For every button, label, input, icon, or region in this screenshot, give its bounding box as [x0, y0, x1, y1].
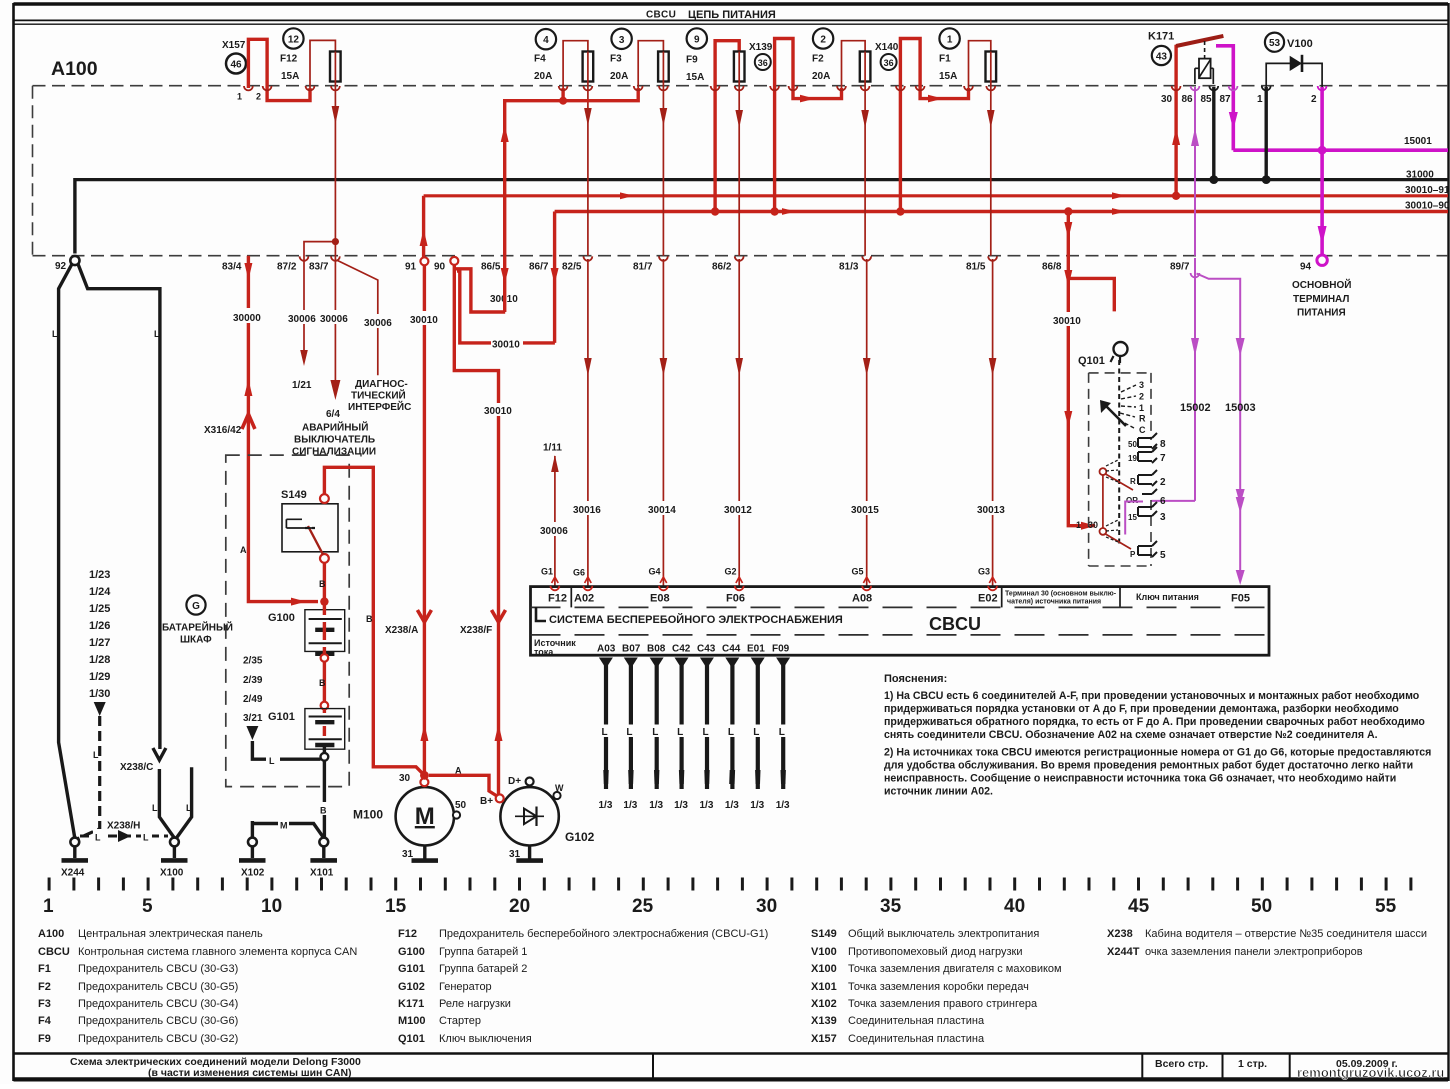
svg-text:1/3: 1/3 — [725, 800, 739, 811]
connector marker X238/A — [417, 610, 431, 622]
svg-text:1/21: 1/21 — [292, 380, 312, 391]
svg-text:1: 1 — [237, 92, 242, 102]
svg-text:Q101: Q101 — [1078, 355, 1105, 367]
svg-text:87: 87 — [1220, 94, 1232, 105]
svg-text:10: 10 — [261, 896, 282, 917]
svg-text:S149: S149 — [281, 489, 307, 501]
svg-text:30000: 30000 — [233, 313, 261, 324]
wire 91 to X238/A to M100 pin30 — [422, 196, 425, 257]
svg-text:V100: V100 — [1287, 38, 1313, 50]
connector sockets on A100 bottom dashed border — [300, 256, 997, 260]
svg-text:1: 1 — [947, 35, 953, 46]
svg-text:30010–91: 30010–91 — [1405, 185, 1450, 196]
wire right chassis to X100 — [176, 767, 191, 838]
svg-text:ТИЧЕСКИЙ: ТИЧЕСКИЙ — [351, 389, 406, 402]
svg-text:Кабина водителя – отверстие №3: Кабина водителя – отверстие №35 соединит… — [1145, 928, 1427, 940]
pin B+ — [496, 794, 504, 802]
wire pin 86 (thin magenta) down to 89/7 — [1194, 87, 1196, 256]
svg-text:12: 12 — [288, 35, 300, 46]
svg-text:1/23: 1/23 — [89, 569, 110, 581]
fuse F1 symbol — [986, 52, 997, 82]
svg-text:15A: 15A — [686, 72, 704, 83]
svg-text:Всего стр.: Всего стр. — [1155, 1058, 1208, 1070]
connector marker X238/F — [492, 610, 506, 622]
svg-text:G5: G5 — [852, 567, 864, 577]
S149 bottom contact circle — [320, 554, 329, 563]
svg-text:Центральная электрическая пане: Центральная электрическая панель — [78, 928, 263, 940]
svg-text:L: L — [143, 833, 149, 843]
svg-text:B07: B07 — [622, 644, 641, 655]
svg-text:L: L — [626, 727, 632, 738]
svg-text:L: L — [677, 727, 683, 738]
svg-text:L: L — [779, 727, 785, 738]
svg-text:15A: 15A — [939, 71, 957, 82]
relay coil — [1199, 59, 1211, 79]
svg-text:89/7: 89/7 — [1170, 262, 1190, 273]
svg-text:X102: X102 — [241, 868, 265, 879]
wire 92 left branch — [59, 264, 75, 838]
svg-text:87/2: 87/2 — [277, 262, 297, 273]
svg-text:1/3: 1/3 — [649, 800, 663, 811]
svg-text:G2: G2 — [725, 567, 737, 577]
svg-text:L: L — [93, 750, 99, 760]
svg-text:30010–90: 30010–90 — [1405, 201, 1450, 212]
svg-text:86/8: 86/8 — [1042, 262, 1062, 273]
ground X100 — [170, 838, 179, 847]
wire X157 bridge (thick red) pins 1-2 — [248, 39, 310, 100]
svg-text:6/4: 6/4 — [326, 409, 340, 420]
svg-text:ШКАФ: ШКАФ — [180, 635, 212, 646]
svg-text:8: 8 — [1160, 439, 1166, 450]
svg-text:X100: X100 — [160, 868, 184, 879]
socket 89/7 — [1191, 273, 1200, 277]
wire below fuse F9 — [738, 82, 740, 256]
arrow into S149 junction — [291, 598, 306, 606]
svg-text:C42: C42 — [672, 644, 691, 655]
svg-text:Точка заземления коробки перед: Точка заземления коробки передач — [848, 981, 1029, 993]
wire F1 top bridge — [969, 41, 991, 88]
svg-text:S149: S149 — [811, 928, 837, 940]
svg-text:CBCU: CBCU — [38, 946, 70, 958]
row divider 2 (dashed) — [531, 634, 1270, 636]
svg-text:6: 6 — [1160, 496, 1166, 507]
red bus 30010-91 — [424, 194, 1448, 197]
svg-text:L: L — [652, 727, 658, 738]
svg-text:Генератор: Генератор — [439, 981, 492, 993]
wire F9 left pin riser from bus 30010-90 — [715, 41, 739, 212]
svg-text:CBCU: CBCU — [929, 614, 981, 634]
svg-text:45: 45 — [1128, 896, 1150, 917]
wire 86/5 from fuse feed — [503, 256, 506, 312]
svg-text:1) На CBCU есть 6 соединителей: 1) На CBCU есть 6 соединителей A-F, при … — [884, 690, 1420, 702]
circled 2 — [813, 28, 833, 48]
header separator double line — [14, 19, 1449, 21]
magenta bus 15001 — [1233, 148, 1448, 152]
svg-text:Группа батарей 2: Группа батарей 2 — [439, 963, 527, 975]
wire below fuse F3 — [662, 82, 664, 256]
svg-text:G4: G4 — [649, 567, 661, 577]
wire L from G101 bottom to 3/21 — [252, 741, 320, 759]
svg-text:F2: F2 — [812, 54, 824, 65]
svg-text:ЦЕПЬ ПИТАНИЯ: ЦЕПЬ ПИТАНИЯ — [688, 9, 776, 21]
svg-text:85: 85 — [1201, 94, 1213, 105]
svg-text:5: 5 — [1160, 550, 1166, 561]
ground X102 — [251, 821, 254, 838]
pin 50 — [453, 811, 460, 818]
wire below fuse F12 — [334, 82, 336, 242]
svg-text:3: 3 — [1160, 512, 1166, 523]
wire below fuse F4 — [587, 82, 589, 256]
svg-text:Предохранитель CBCU (30-G3): Предохранитель CBCU (30-G3) — [78, 963, 238, 975]
svg-text:B: B — [319, 678, 326, 688]
wire pin 85 (black) to 31000 — [1212, 87, 1215, 180]
svg-text:X102: X102 — [811, 998, 837, 1010]
svg-text:1: 1 — [1257, 94, 1263, 105]
connector marker X238/C — [153, 748, 166, 760]
svg-text:36: 36 — [884, 58, 894, 68]
circled 36 — [755, 54, 771, 70]
svg-text:90: 90 — [434, 262, 446, 273]
svg-text:L: L — [154, 329, 160, 339]
diode circuit wire — [1266, 63, 1322, 87]
svg-text:1: 1 — [1139, 403, 1144, 413]
fuse F12 symbol — [330, 52, 341, 82]
svg-text:F05: F05 — [1231, 593, 1250, 605]
svg-text:1/3: 1/3 — [750, 800, 764, 811]
circled G — [186, 595, 205, 614]
svg-text:G100: G100 — [268, 612, 295, 624]
svg-text:2: 2 — [256, 92, 261, 102]
battery cabinet dashed box — [226, 455, 349, 786]
svg-text:Ключ питания: Ключ питания — [1136, 592, 1199, 602]
circled 4 — [536, 29, 556, 49]
svg-text:5: 5 — [142, 896, 153, 917]
svg-text:2/39: 2/39 — [243, 675, 263, 686]
wire 86/7 from bus 30010-90 — [553, 212, 556, 343]
fuse F3 symbol — [658, 52, 669, 82]
svg-text:CBCU: CBCU — [646, 10, 676, 21]
fuse F4 symbol — [583, 52, 594, 82]
svg-text:Терминал 30 (основном выклю-: Терминал 30 (основном выклю- — [1005, 591, 1117, 598]
svg-text:тока: тока — [534, 647, 554, 657]
svg-text:86/5: 86/5 — [481, 262, 501, 273]
svg-text:30016: 30016 — [573, 505, 601, 516]
svg-text:1/29: 1/29 — [89, 671, 110, 683]
svg-text:1/3: 1/3 — [700, 800, 714, 811]
svg-text:82/5: 82/5 — [562, 262, 582, 273]
svg-text:53: 53 — [1269, 38, 1281, 49]
wire 86/2 down to G2 — [738, 259, 740, 586]
wire label 30006 — [287, 310, 321, 324]
svg-text:чателя) источника питания: чателя) источника питания — [1007, 599, 1101, 606]
svg-text:15002: 15002 — [1180, 402, 1211, 414]
wire through G100 — [323, 602, 326, 654]
wire diag branch to diagnostic interface — [337, 260, 378, 375]
svg-text:1/3: 1/3 — [776, 800, 790, 811]
svg-text:30014: 30014 — [648, 505, 676, 516]
diode glyph — [515, 815, 544, 817]
svg-text:X238/C: X238/C — [120, 762, 153, 773]
wire 15003 branch — [1197, 274, 1241, 579]
svg-text:Соединительная пластина: Соединительная пластина — [848, 1015, 985, 1027]
svg-text:придерживаться обратного поряд: придерживаться обратного порядка, то ест… — [884, 716, 1425, 728]
label 30010 on X238/F wire — [483, 403, 515, 416]
svg-text:1/11: 1/11 — [543, 443, 562, 454]
wire 90 common node branches — [454, 265, 498, 799]
pin 30 — [420, 778, 428, 786]
svg-text:V100: V100 — [811, 946, 837, 958]
junction dot F4 feed — [559, 97, 567, 105]
wire M between X102 and X101 — [252, 824, 323, 839]
svg-text:X101: X101 — [811, 981, 837, 993]
svg-text:L: L — [152, 803, 158, 813]
node between batteries — [321, 654, 329, 662]
svg-text:94: 94 — [1300, 262, 1312, 273]
svg-text:X238: X238 — [1107, 928, 1133, 940]
svg-text:E02: E02 — [978, 593, 998, 605]
wire X139 bridge — [775, 39, 842, 212]
svg-text:F12: F12 — [548, 593, 567, 605]
svg-text:1: 1 — [1076, 520, 1081, 530]
wire below fuse F1 — [990, 82, 992, 256]
svg-text:F1: F1 — [939, 54, 951, 65]
svg-text:источник линии A02.: источник линии A02. — [884, 786, 993, 798]
node 92 circle — [70, 256, 79, 265]
svg-text:2) На источниках тока CBCU име: 2) На источниках тока CBCU имеются регис… — [884, 747, 1431, 759]
svg-text:2/49: 2/49 — [243, 694, 263, 705]
Q101 dashed box — [1089, 373, 1151, 566]
svg-text:Контрольная система главного э: Контрольная система главного элемента ко… — [78, 946, 357, 958]
svg-text:83/7: 83/7 — [309, 262, 329, 273]
svg-text:Точка заземления правого стрин: Точка заземления правого стрингера — [848, 998, 1038, 1010]
label 30010 — [1052, 312, 1084, 326]
svg-text:15003: 15003 — [1225, 402, 1256, 414]
A100 dashed box bottom border (pin row) — [33, 255, 1449, 257]
svg-text:81/3: 81/3 — [839, 262, 859, 273]
svg-text:30010: 30010 — [484, 406, 512, 417]
svg-text:1/25: 1/25 — [89, 603, 110, 615]
svg-text:F4: F4 — [38, 1015, 52, 1027]
svg-text:2/35: 2/35 — [243, 656, 263, 667]
svg-text:Предохранитель бесперебойного: Предохранитель бесперебойного электросна… — [439, 928, 768, 940]
svg-text:50: 50 — [1251, 896, 1272, 917]
svg-text:1/26: 1/26 — [89, 620, 110, 632]
svg-text:F3: F3 — [38, 998, 51, 1010]
svg-text:B+: B+ — [480, 796, 493, 807]
svg-text:F09: F09 — [772, 644, 790, 655]
wire 86/8 from bus 30010-90 to Q101 pin 30 — [1068, 212, 1095, 526]
svg-text:25: 25 — [632, 896, 654, 917]
wire F4 left pin bridge — [563, 41, 588, 101]
svg-text:30: 30 — [1088, 520, 1098, 530]
svg-text:30006: 30006 — [364, 318, 392, 329]
battery G100 box — [305, 610, 345, 652]
svg-text:X140: X140 — [875, 42, 899, 53]
legend column 2 — [398, 928, 426, 1045]
svg-text:A100: A100 — [51, 58, 98, 80]
relay contact pin 30 wire — [1174, 45, 1177, 196]
svg-text:очка заземления панели электро: очка заземления панели электроприборов — [1145, 946, 1363, 958]
svg-text:G102: G102 — [565, 830, 595, 844]
wire F12 top bridge (thin red) — [310, 40, 335, 88]
svg-text:Предохранитель CBCU (30-G2): Предохранитель CBCU (30-G2) — [78, 1033, 238, 1045]
battery G101 box — [305, 709, 345, 750]
svg-text:G1: G1 — [541, 567, 553, 577]
wire F3 top bridge — [638, 41, 663, 88]
svg-text:M: M — [415, 803, 435, 830]
generator G102 — [500, 787, 558, 845]
svg-text:86/7: 86/7 — [529, 262, 549, 273]
svg-text:15001: 15001 — [1404, 136, 1432, 147]
svg-text:F3: F3 — [610, 54, 622, 65]
svg-text:9: 9 — [694, 35, 700, 46]
svg-text:30006: 30006 — [540, 526, 568, 537]
svg-text:ТЕРМИНАЛ: ТЕРМИНАЛ — [1293, 294, 1349, 305]
junction dot — [332, 238, 339, 245]
ruler numbers — [43, 896, 1397, 917]
svg-text:50: 50 — [1128, 440, 1137, 449]
label 30010 on 86/5 branch — [489, 291, 521, 304]
svg-text:G: G — [192, 601, 200, 612]
A100 dashed box top border — [33, 85, 1449, 87]
circled 46 — [226, 54, 246, 74]
wire 81/5 down to G3 — [992, 259, 994, 586]
svg-text:30: 30 — [399, 773, 411, 784]
svg-text:15A: 15A — [281, 71, 299, 82]
CBCU box — [531, 587, 1270, 656]
wire S149 bottom to junction — [323, 563, 326, 602]
svg-text:X157: X157 — [811, 1033, 837, 1045]
pin W — [553, 792, 560, 799]
wire S149 top to B wire — [324, 467, 424, 775]
svg-text:3: 3 — [1139, 380, 1144, 390]
wire pin 83/7 down to 6/4 — [334, 242, 336, 380]
svg-text:91: 91 — [405, 262, 417, 273]
svg-text:1/3: 1/3 — [674, 800, 688, 811]
ground X101 — [319, 838, 328, 847]
svg-text:L: L — [186, 803, 192, 813]
svg-text:F1: F1 — [38, 963, 51, 975]
terminal 94 circle — [1317, 255, 1327, 265]
svg-text:A03: A03 — [597, 644, 616, 655]
svg-text:30012: 30012 — [724, 505, 752, 516]
svg-text:L: L — [728, 727, 734, 738]
wire to pin 87/2 — [304, 242, 335, 352]
svg-text:92: 92 — [55, 261, 67, 272]
svg-text:X139: X139 — [811, 1015, 837, 1027]
svg-text:15: 15 — [385, 896, 407, 917]
legend column 4 — [1107, 928, 1140, 958]
svg-text:G102: G102 — [398, 981, 425, 993]
svg-text:F12: F12 — [398, 928, 417, 940]
title block bottom line — [14, 1077, 1449, 1079]
svg-text:X244: X244 — [61, 868, 85, 879]
wire through G101 — [323, 709, 326, 736]
svg-text:Группа батарей 1: Группа батарей 1 — [439, 946, 527, 958]
svg-text:E08: E08 — [650, 593, 670, 605]
svg-text:1/3: 1/3 — [623, 800, 637, 811]
svg-text:X139: X139 — [749, 42, 773, 53]
svg-text:X238/H: X238/H — [107, 821, 140, 832]
ground X244 — [70, 838, 79, 847]
page border frame — [14, 2, 1449, 5]
svg-text:D+: D+ — [508, 776, 521, 787]
wire label 30006 — [318, 310, 352, 324]
svg-text:30006: 30006 — [320, 314, 348, 325]
svg-text:БАТАРЕЙНЫЙ: БАТАРЕЙНЫЙ — [162, 621, 233, 634]
wire X238/H dashed link — [80, 835, 168, 838]
svg-text:K171: K171 — [398, 998, 424, 1010]
svg-text:неисправность. Сообщение о неи: неисправность. Сообщение о неисправности… — [884, 773, 1396, 785]
svg-text:X100: X100 — [811, 963, 837, 975]
svg-text:remontgruzovik.ucoz.ru: remontgruzovik.ucoz.ru — [1297, 1065, 1444, 1080]
position rays (dashed) — [1119, 385, 1136, 428]
svg-text:для удобства обслуживания. Во: для удобства обслуживания. Во время пров… — [884, 760, 1413, 772]
svg-text:Точка заземления двигателя с м: Точка заземления двигателя с маховиком — [848, 963, 1062, 975]
svg-text:СИСТЕМА БЕСПЕРЕБОЙНОГО ЭЛЕКТРО: СИСТЕМА БЕСПЕРЕБОЙНОГО ЭЛЕКТРОСНАБЖЕНИЯ — [549, 613, 843, 626]
black bus 31000 — [75, 178, 1448, 181]
svg-text:15: 15 — [1128, 513, 1137, 522]
svg-text:1/3: 1/3 — [599, 800, 613, 811]
svg-text:1/24: 1/24 — [89, 586, 111, 598]
svg-text:Предохранитель CBCU (30-G6): Предохранитель CBCU (30-G6) — [78, 1015, 238, 1027]
wire pin 1 (black) to 31000 — [1264, 87, 1267, 180]
up arrow — [244, 379, 252, 396]
red bus F4-F3 feed — [505, 88, 639, 256]
svg-text:43: 43 — [1156, 52, 1168, 63]
wire 81/7 down to G4 — [662, 259, 664, 586]
svg-text:Реле нагрузки: Реле нагрузки — [439, 998, 511, 1010]
contact bank — [1138, 433, 1157, 557]
G101 bottom node — [323, 746, 326, 753]
svg-text:R: R — [1139, 414, 1146, 424]
svg-text:20A: 20A — [812, 71, 830, 82]
svg-text:M100: M100 — [398, 1015, 426, 1027]
wire 82/5 down to G6 — [587, 259, 589, 586]
svg-text:35: 35 — [880, 896, 902, 917]
svg-text:L: L — [95, 833, 101, 843]
wire 15002 (89/7 down to Q101 contact 6) — [1194, 258, 1196, 501]
svg-text:86/2: 86/2 — [712, 262, 732, 273]
legend column 1 — [38, 928, 70, 1045]
title block top line — [14, 1052, 1449, 1054]
svg-text:A100: A100 — [38, 928, 64, 940]
svg-text:A02: A02 — [574, 593, 594, 605]
svg-text:L: L — [703, 727, 709, 738]
svg-text:30010: 30010 — [1053, 316, 1081, 327]
svg-text:4: 4 — [543, 35, 549, 46]
fuse F9 symbol — [734, 52, 745, 82]
svg-text:L: L — [753, 727, 759, 738]
diode symbol — [1290, 56, 1302, 71]
svg-text:1/27: 1/27 — [89, 637, 110, 649]
svg-text:L: L — [269, 756, 275, 766]
circled 1 — [939, 28, 959, 48]
svg-text:2: 2 — [1139, 392, 1144, 402]
svg-text:ДИАГНОС-: ДИАГНОС- — [355, 379, 408, 390]
svg-text:81/5: 81/5 — [966, 262, 986, 273]
G101 cells — [309, 717, 342, 740]
S149 fixed contact — [286, 519, 315, 528]
svg-text:E01: E01 — [747, 644, 765, 655]
G100 cells — [309, 619, 342, 643]
key glyph — [1114, 342, 1128, 356]
svg-text:1/30: 1/30 — [89, 688, 110, 700]
divider — [652, 1054, 654, 1079]
svg-text:30: 30 — [756, 896, 777, 917]
svg-text:2: 2 — [1160, 477, 1166, 488]
svg-text:30013: 30013 — [977, 505, 1005, 516]
